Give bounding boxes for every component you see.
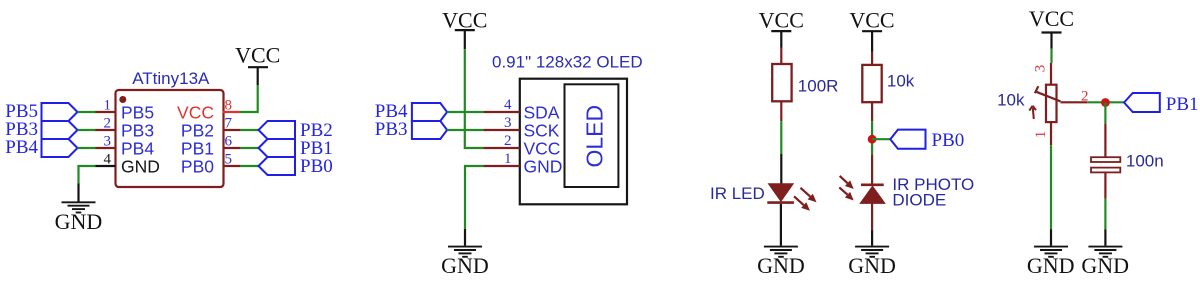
ground GND (OLED) xyxy=(441,247,489,278)
svg-text:OLED: OLED xyxy=(582,105,608,168)
photodiode D2 IR PHOTO DIODE xyxy=(860,185,885,204)
pot adjust arrow xyxy=(1029,106,1036,119)
wire pin6 to PB1 flag xyxy=(240,147,259,149)
svg-text:GND: GND xyxy=(121,157,160,177)
ground GND (C1) xyxy=(1081,247,1129,278)
U1 pin 6 PB1 xyxy=(181,134,240,159)
ground GND (photodiode) xyxy=(848,247,896,278)
wire pot wiper to PB1 flag xyxy=(1087,101,1124,103)
label IR PHOTO DIODE xyxy=(892,175,974,209)
svg-text:3: 3 xyxy=(1033,65,1049,73)
U1 pin 3 PB4 xyxy=(96,134,155,159)
svg-text:VCC: VCC xyxy=(524,139,561,159)
LED D1 IR LED xyxy=(767,184,794,203)
U1 pin 5 PB0 xyxy=(181,152,240,177)
OLED pin 3 SCK xyxy=(483,115,559,141)
flag PB4 (left) xyxy=(5,137,77,158)
power VCC (R1 branch) xyxy=(759,8,804,48)
LED emission arrow 1 xyxy=(801,188,817,203)
junction node PB0 xyxy=(868,135,877,144)
svg-text:SDA: SDA xyxy=(524,103,560,123)
power VCC (pot) xyxy=(1029,6,1074,49)
wire pot pin1 down to ground xyxy=(1050,145,1052,229)
svg-text:4: 4 xyxy=(504,97,512,113)
svg-text:PB0: PB0 xyxy=(932,130,965,151)
svg-text:VCC: VCC xyxy=(759,8,804,33)
svg-text:VCC: VCC xyxy=(849,8,894,33)
svg-text:10k: 10k xyxy=(997,91,1025,110)
svg-text:SCK: SCK xyxy=(524,121,560,141)
flag PB1 xyxy=(1124,93,1198,115)
svg-text:GND: GND xyxy=(1081,253,1129,278)
svg-text:IR LED: IR LED xyxy=(710,184,765,203)
U1 pin 1 PB5 xyxy=(96,98,155,123)
svg-text:5: 5 xyxy=(225,152,233,168)
OLED pin 2 VCC xyxy=(483,133,560,159)
svg-text:GND: GND xyxy=(757,253,805,278)
wire PB3 to SCK xyxy=(447,129,483,131)
op-amp U1 ATtiny13A body xyxy=(116,90,224,187)
flag PB3 (OLED) xyxy=(375,119,447,140)
svg-text:VCC: VCC xyxy=(235,42,280,67)
ground GND (U1) xyxy=(55,202,103,234)
power VCC (OLED) xyxy=(442,8,487,50)
svg-text:6: 6 xyxy=(225,134,233,150)
svg-text:PB4: PB4 xyxy=(5,137,38,158)
photodiode incoming arrow 1 xyxy=(840,176,854,189)
flag PB5 (left) xyxy=(5,101,77,122)
display glass inner box xyxy=(565,84,619,187)
LED cathode to ground xyxy=(780,204,782,246)
svg-text:GND: GND xyxy=(441,253,489,278)
svg-text:PB3: PB3 xyxy=(121,121,154,141)
svg-text:GND: GND xyxy=(1027,253,1075,278)
svg-text:VCC: VCC xyxy=(1029,6,1074,31)
svg-text:2: 2 xyxy=(504,133,512,149)
wire junction down to C1 xyxy=(1104,103,1106,124)
wire VCC down to pin2 xyxy=(465,49,484,148)
wire PB4 to SDA xyxy=(447,111,483,113)
flag PB1 (right) xyxy=(259,138,333,159)
svg-text:ATtiny13A: ATtiny13A xyxy=(132,69,210,88)
svg-text:PB1: PB1 xyxy=(1166,94,1199,115)
wire pin8 to VCC xyxy=(240,85,258,112)
photodiode D2 cathode lead xyxy=(871,155,873,184)
svg-text:10k: 10k xyxy=(887,72,915,91)
svg-text:100n: 100n xyxy=(1126,152,1164,171)
svg-text:PB4: PB4 xyxy=(121,139,154,159)
wire PB3 to pin2 xyxy=(78,129,96,131)
ground stem (U1) xyxy=(77,184,79,202)
capacitor C1 100n xyxy=(1091,124,1164,199)
svg-text:1: 1 xyxy=(504,151,512,167)
wire R2 to photodiode xyxy=(871,121,873,154)
potentiometer RV1 10k xyxy=(1035,63,1087,145)
OLED pin 1 GND xyxy=(483,151,562,177)
svg-text:DIODE: DIODE xyxy=(892,190,946,209)
power VCC (U1) xyxy=(235,42,280,85)
svg-text:PB0: PB0 xyxy=(300,156,333,177)
flag PB3 (left) xyxy=(5,119,77,140)
flag PB0 (photodiode) xyxy=(890,130,964,151)
svg-text:0.91" 128x32 OLED: 0.91" 128x32 OLED xyxy=(492,53,643,72)
wire C1 down to ground xyxy=(1104,199,1106,230)
wire pin5 to PB0 flag xyxy=(240,165,259,167)
svg-text:PB5: PB5 xyxy=(121,103,154,123)
wire PB4 to pin3 xyxy=(78,147,96,149)
flag PB0 (right) xyxy=(259,156,333,177)
display module outer box xyxy=(520,79,627,205)
photodiode incoming arrow 2 xyxy=(839,187,853,200)
svg-text:VCC: VCC xyxy=(177,103,214,123)
svg-text:PB0: PB0 xyxy=(181,157,214,177)
svg-text:VCC: VCC xyxy=(442,8,487,33)
U1 pin 7 PB2 xyxy=(181,116,240,141)
flag PB4 (OLED) xyxy=(375,101,447,122)
resistor R1 100R xyxy=(772,48,838,122)
svg-text:1: 1 xyxy=(1033,131,1049,139)
ground stem (OLED) xyxy=(464,229,466,246)
wire PB5 to pin1 xyxy=(78,111,96,113)
U1 pin 2 PB3 xyxy=(96,116,155,141)
svg-text:GND: GND xyxy=(848,253,896,278)
U1 pin-1 marker dot xyxy=(119,96,126,103)
flag PB2 (right) xyxy=(259,120,333,141)
wire pin7 to PB2 flag xyxy=(240,129,259,131)
U1 pin 4 GND xyxy=(96,152,160,177)
ground stem (C1) xyxy=(1104,229,1106,246)
wire pin4 to ground xyxy=(79,166,96,184)
ground GND (LED) xyxy=(757,247,805,278)
photodiode anode lead xyxy=(871,203,873,230)
svg-text:100R: 100R xyxy=(798,77,839,96)
svg-text:PB2: PB2 xyxy=(181,121,214,141)
LED emission arrow 2 xyxy=(794,196,810,211)
svg-text:GND: GND xyxy=(55,209,103,234)
svg-text:3: 3 xyxy=(504,115,512,131)
junction node PB1 xyxy=(1101,98,1110,107)
wire VCC to pot pin 3 xyxy=(1050,49,1052,63)
svg-text:8: 8 xyxy=(225,98,233,114)
resistor R2 10k xyxy=(862,52,915,121)
ground stem (pot) xyxy=(1050,229,1052,246)
svg-text:PB3: PB3 xyxy=(375,119,408,140)
svg-text:1: 1 xyxy=(104,98,112,114)
wire R1 to LED xyxy=(780,121,782,154)
svg-text:PB1: PB1 xyxy=(181,139,214,159)
ground stem (photodiode) xyxy=(871,231,873,246)
U1 pin 8 VCC xyxy=(177,98,240,123)
ground GND (pot) xyxy=(1027,247,1075,278)
svg-text:2: 2 xyxy=(104,116,112,132)
svg-text:7: 7 xyxy=(225,116,233,132)
svg-text:3: 3 xyxy=(104,134,112,150)
power VCC (R2 branch) xyxy=(849,8,894,52)
OLED pin 4 SDA xyxy=(483,97,559,123)
wire junction to PB0 flag xyxy=(872,138,890,140)
LED anode lead xyxy=(780,154,782,184)
svg-text:4: 4 xyxy=(104,152,112,168)
wire GND pin1 down xyxy=(465,166,483,229)
svg-text:GND: GND xyxy=(524,157,563,177)
